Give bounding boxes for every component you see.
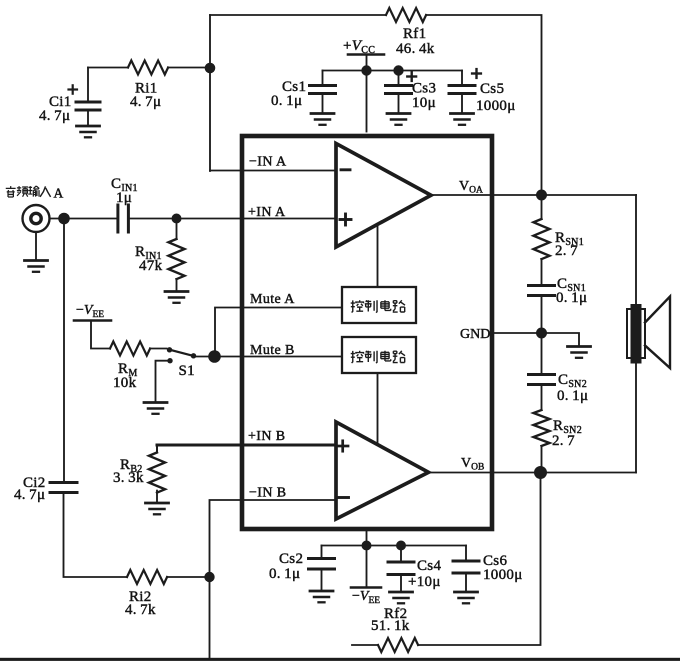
svg-text:−VEE: −VEE: [76, 303, 104, 320]
wire Cs6 stems: [465, 546, 467, 592]
wire VCC rail: [323, 70, 463, 72]
wire CSN2 to RSN2: [541, 386, 543, 410]
wire GND node to CSN2: [541, 333, 543, 373]
wire bottom rail: [322, 545, 467, 547]
svg-text:S1: S1: [179, 363, 195, 379]
resistor RIN1: [169, 239, 185, 279]
wire Cs2 stems: [321, 546, 323, 591]
svg-text:46. 4k: 46. 4k: [396, 41, 435, 57]
power -VEE top bar: [74, 319, 111, 322]
capacitor Cs5: [449, 86, 475, 94]
node Cs3 rail: [393, 65, 403, 75]
capacitor CIN1: [118, 205, 128, 232]
ground S1: [144, 403, 167, 414]
capacitor CSN2: [529, 375, 555, 385]
resistor Ri2: [127, 570, 167, 584]
plus op-amp A: [340, 214, 351, 225]
node VCC stem: [361, 65, 371, 75]
wire junction down to border: [209, 577, 211, 658]
switch S1 lever: [172, 350, 192, 355]
node GND: [536, 328, 547, 339]
wire Ri1 right: [168, 67, 210, 69]
minus op-amp B: [339, 496, 349, 499]
power -VEE bottom bar: [351, 586, 381, 589]
svg-text:−VEE: −VEE: [352, 589, 380, 606]
wire Ci1 stem: [87, 68, 89, 101]
wire input to CIN1: [50, 218, 116, 220]
resistor RB2: [149, 453, 165, 493]
wire Rf2 branch: [418, 473, 541, 646]
ground Cs4: [390, 592, 413, 603]
wire control line B: [377, 373, 379, 444]
wire Cs3 stems: [398, 71, 400, 113]
power +VCC bar: [348, 53, 384, 56]
svg-text:+VCC: +VCC: [343, 38, 375, 56]
wire Ri2 to junction: [167, 576, 210, 578]
wire Ci1 to ground: [87, 112, 89, 126]
svg-text:0. 1μ: 0. 1μ: [271, 93, 302, 109]
wire control line A: [377, 225, 379, 288]
svg-text:3. 3k: 3. 3k: [113, 470, 144, 486]
bottom border: [0, 658, 680, 661]
svg-text:GND: GND: [460, 327, 490, 342]
capacitor CSN1: [529, 286, 555, 296]
wire -VEE bottom stem: [366, 546, 368, 588]
plus Ci1: [69, 85, 78, 93]
svg-text:51. 1k: 51. 1k: [371, 618, 410, 634]
node VOB: [534, 466, 547, 479]
wire top feedback right segment: [426, 15, 541, 190]
svg-text:Mute A: Mute A: [250, 292, 295, 307]
wire RM to switch: [150, 348, 166, 350]
node VOA: [536, 190, 547, 201]
ground Ci1: [77, 126, 100, 137]
svg-text:1μ: 1μ: [116, 190, 132, 206]
wire top feedback left segment: [210, 14, 386, 16]
plus Cs3: [407, 72, 416, 81]
resistor RM: [110, 342, 150, 356]
wire Ri1 left: [88, 67, 128, 69]
wire speaker bottom vertical: [635, 363, 637, 473]
svg-text:4. 7μ: 4. 7μ: [39, 108, 70, 124]
ground RIN1: [165, 292, 188, 303]
capacitor Cs4: [388, 562, 414, 575]
wire -IN A pin: [210, 170, 336, 172]
switch contact upper: [167, 347, 172, 352]
svg-text:−IN A: −IN A: [249, 155, 287, 170]
wire input jack to ground: [35, 233, 37, 260]
label control circuit text A: [351, 300, 405, 312]
control box A: [342, 287, 416, 323]
plus op-amp B: [338, 441, 349, 451]
ground Cs2: [310, 591, 333, 602]
node junction Ri1/feedback: [205, 63, 216, 74]
svg-text:4. 7k: 4. 7k: [125, 602, 156, 618]
op-amp A: [336, 144, 431, 248]
wire Mute A branch: [215, 308, 342, 357]
label 音频输入A: [6, 186, 64, 201]
ground Cs5: [451, 114, 474, 125]
capacitor Ci2: [50, 483, 77, 493]
capacitor Ci1: [76, 102, 100, 110]
wire left rail input to Ci2: [63, 219, 65, 483]
svg-text:2. 7: 2. 7: [552, 433, 575, 449]
ground Cs3: [387, 114, 410, 125]
ground GND pin: [568, 347, 591, 358]
wire GND pin: [492, 333, 579, 345]
svg-text:Rf1: Rf1: [403, 26, 426, 42]
control box B: [342, 337, 416, 373]
svg-text:0. 1μ: 0. 1μ: [557, 388, 588, 404]
IC box U1: [242, 136, 492, 529]
connector input jack: [23, 205, 50, 232]
svg-text:Cs5: Cs5: [480, 81, 504, 97]
ground Cs6: [455, 592, 478, 603]
wire RSN1 top stem: [541, 195, 543, 219]
wire +VCC stem: [366, 55, 368, 132]
wire RSN2 bottom stem: [541, 446, 543, 473]
ground input jack: [25, 261, 48, 272]
resistor Rf1: [386, 8, 426, 22]
wire Rf2 left stub: [352, 644, 378, 646]
wire RB2 top stem: [156, 445, 158, 453]
resistor Ri1: [128, 61, 168, 75]
wire Cs4 stems: [400, 546, 402, 592]
switch contact mid: [191, 353, 196, 358]
node bottom rail left: [362, 541, 372, 551]
svg-text:10k: 10k: [113, 375, 137, 391]
wire RSN1 to CSN1: [541, 259, 543, 284]
svg-text:2. 7: 2. 7: [555, 243, 578, 259]
capacitor Cs2: [309, 559, 335, 570]
ground Cs1: [311, 114, 334, 125]
svg-text:−IN B: −IN B: [249, 486, 287, 501]
svg-text:Cs2: Cs2: [279, 551, 303, 567]
svg-text:VOA: VOA: [459, 179, 483, 196]
op-amp B: [336, 422, 429, 519]
wire left feedback vertical: [209, 15, 211, 171]
wire switch to Mute B node: [196, 356, 342, 358]
svg-text:Mute B: Mute B: [250, 343, 295, 358]
svg-text:4. 7μ: 4. 7μ: [14, 487, 45, 503]
node bottom rail right: [396, 541, 406, 551]
svg-text:4. 7μ: 4. 7μ: [130, 94, 161, 110]
switch contact lower: [167, 358, 172, 363]
resistor RSN1: [534, 219, 550, 259]
wire RIN1 bottom stem: [176, 279, 178, 290]
capacitor Cs3: [386, 86, 412, 94]
svg-text:VOB: VOB: [461, 456, 484, 473]
plus Cs5: [472, 69, 481, 78]
speaker: [627, 309, 645, 358]
wire +IN B pin thick: [157, 444, 336, 447]
node Mute B / switch: [208, 350, 221, 363]
ground RB2: [146, 503, 169, 514]
capacitor Cs6: [453, 561, 479, 573]
label control circuit text B: [351, 351, 405, 363]
wire RB2 bottom stem: [156, 491, 158, 502]
svg-text:A: A: [54, 186, 64, 201]
wire speaker top vertical: [635, 195, 637, 304]
wire VOB output: [429, 472, 637, 474]
svg-text:0. 1μ: 0. 1μ: [556, 290, 587, 306]
wire Cs1 stems: [322, 71, 324, 113]
svg-text:1000μ: 1000μ: [476, 98, 516, 114]
svg-text:10μ: 10μ: [412, 95, 436, 111]
resistor RSN2: [534, 410, 550, 446]
node CIN1/RIN1: [172, 214, 182, 224]
minus op-amp A: [341, 168, 350, 171]
wire +IN A pin: [130, 218, 336, 220]
wire VOA output: [431, 194, 636, 196]
wire Cs5 stems: [461, 71, 463, 113]
node Ri2 junction: [204, 572, 214, 582]
svg-text:Cs4: Cs4: [417, 558, 441, 574]
wire -VEE to RM: [91, 322, 110, 349]
wire Ci2 to Ri2: [64, 494, 128, 577]
wire RIN1 top stem: [176, 219, 178, 240]
svg-text:+IN B: +IN B: [248, 429, 286, 444]
wire CSN1 to GND node: [541, 297, 543, 333]
svg-text:0. 1μ: 0. 1μ: [269, 566, 300, 582]
svg-text:47k: 47k: [139, 258, 163, 274]
node input jack: [58, 213, 70, 225]
svg-text:1000μ: 1000μ: [483, 567, 523, 583]
wire S1 ground branch: [156, 361, 171, 402]
svg-text:+10μ: +10μ: [408, 574, 441, 590]
resistor Rf2: [378, 638, 418, 652]
capacitor Cs1: [310, 86, 336, 94]
wire -IN B branch: [210, 500, 337, 577]
wire box bottom stem: [366, 529, 368, 546]
speaker magnet bar: [631, 304, 642, 364]
svg-text:+IN A: +IN A: [248, 205, 286, 220]
